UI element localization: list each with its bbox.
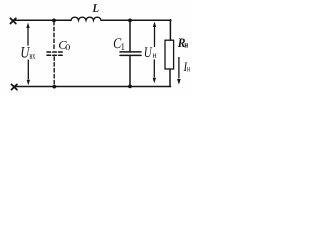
label L: [92, 4, 98, 12]
capacitor C0 top plate (dashed): [47, 51, 63, 53]
label U_vx: [22, 47, 31, 58]
node: C1 top junction: [128, 19, 132, 23]
voltage arrow U_n up (right): [153, 22, 156, 47]
inductor L (4 humps): [71, 17, 101, 20]
wire top horizontal (inductor to right corner): [101, 19, 171, 21]
wire right vertical drop to resistor: [169, 20, 171, 41]
capacitor C0 dashed top lead: [53, 22, 55, 51]
node: C0 top junction: [52, 19, 56, 23]
voltage arrow U_vx up (left): [26, 23, 29, 46]
resistor Rn body: [165, 40, 174, 69]
input terminal X1 (top left cross): [10, 18, 15, 23]
current arrow I_n: [177, 57, 181, 85]
voltage arrow U_n down (right): [153, 59, 156, 83]
wire resistor bottom to bottom rail: [169, 69, 171, 87]
capacitor C1 bottom plate: [120, 54, 141, 56]
label I_n: [184, 63, 188, 72]
output terminal X2 (bottom left cross): [12, 84, 17, 89]
wire top horizontal (terminal to inductor): [13, 19, 71, 21]
capacitor C1 top lead: [129, 21, 131, 51]
label C1: [114, 38, 122, 48]
label U_n: [145, 47, 153, 57]
capacitor C0 dashed bottom lead: [53, 57, 55, 86]
node: C1 bottom junction: [128, 85, 132, 89]
voltage arrow U_vx down (left): [27, 60, 30, 86]
label C0: [59, 41, 67, 49]
capacitor C1 bottom lead: [129, 56, 131, 86]
capacitor C1 top plate: [120, 51, 141, 53]
node: C0 bottom junction: [52, 85, 56, 89]
wire bottom horizontal rail: [14, 86, 171, 88]
capacitor C0 bottom plate (dashed): [47, 54, 63, 56]
label R_n: [178, 39, 185, 48]
